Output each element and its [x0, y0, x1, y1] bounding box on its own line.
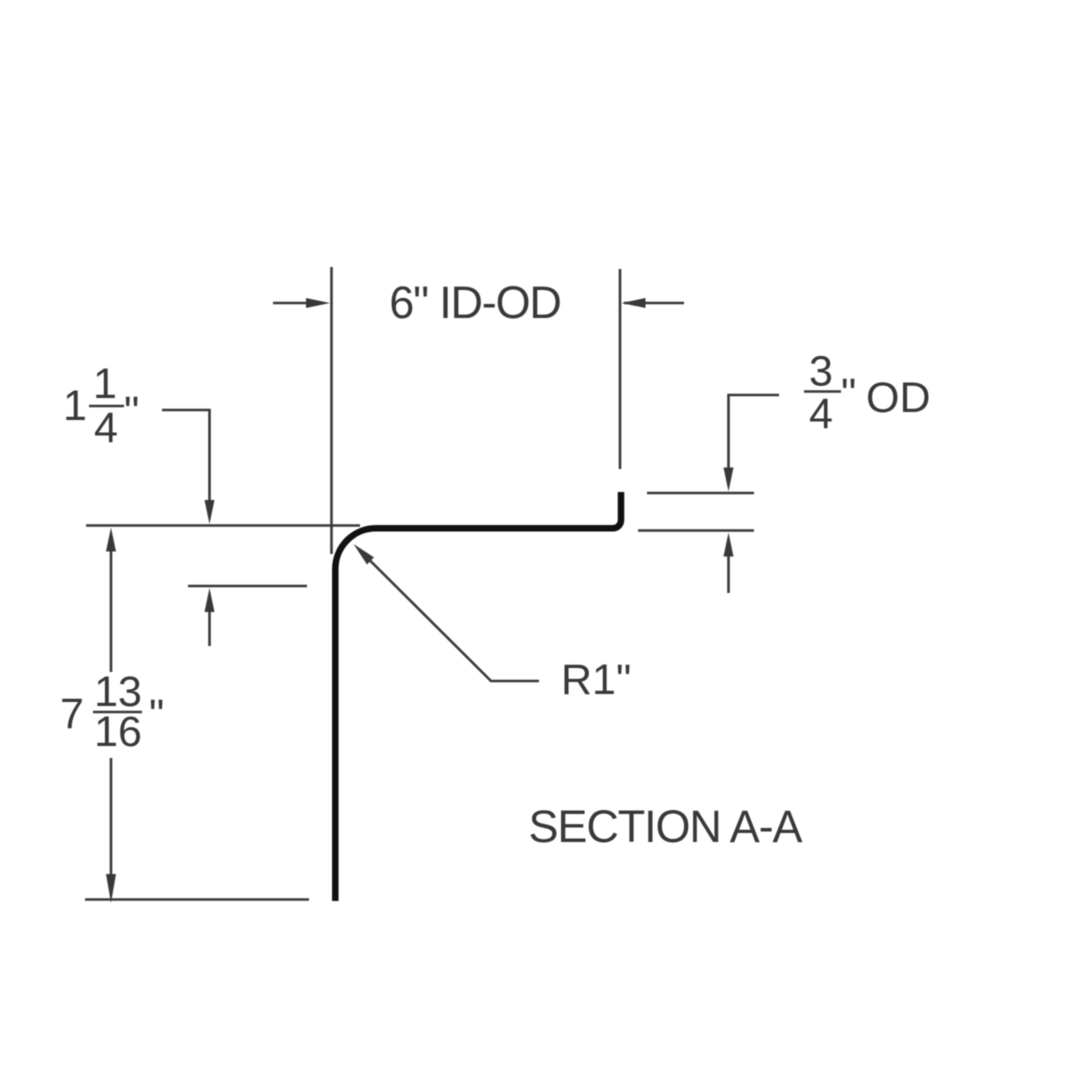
svg-text:1: 1: [93, 360, 117, 408]
svg-text:": ": [149, 691, 164, 739]
svg-text:OD: OD: [866, 374, 931, 422]
svg-text:R1": R1": [561, 656, 631, 704]
svg-text:": ": [841, 370, 856, 418]
svg-text:SECTION A-A: SECTION A-A: [529, 801, 803, 852]
svg-text:7: 7: [60, 690, 84, 738]
svg-text:3: 3: [809, 348, 833, 396]
svg-text:4: 4: [94, 404, 118, 452]
svg-text:1: 1: [63, 382, 87, 430]
svg-text:6" ID-OD: 6" ID-OD: [389, 277, 560, 328]
svg-text:4: 4: [809, 390, 833, 438]
svg-text:16: 16: [94, 708, 142, 756]
svg-text:": ": [124, 388, 139, 436]
